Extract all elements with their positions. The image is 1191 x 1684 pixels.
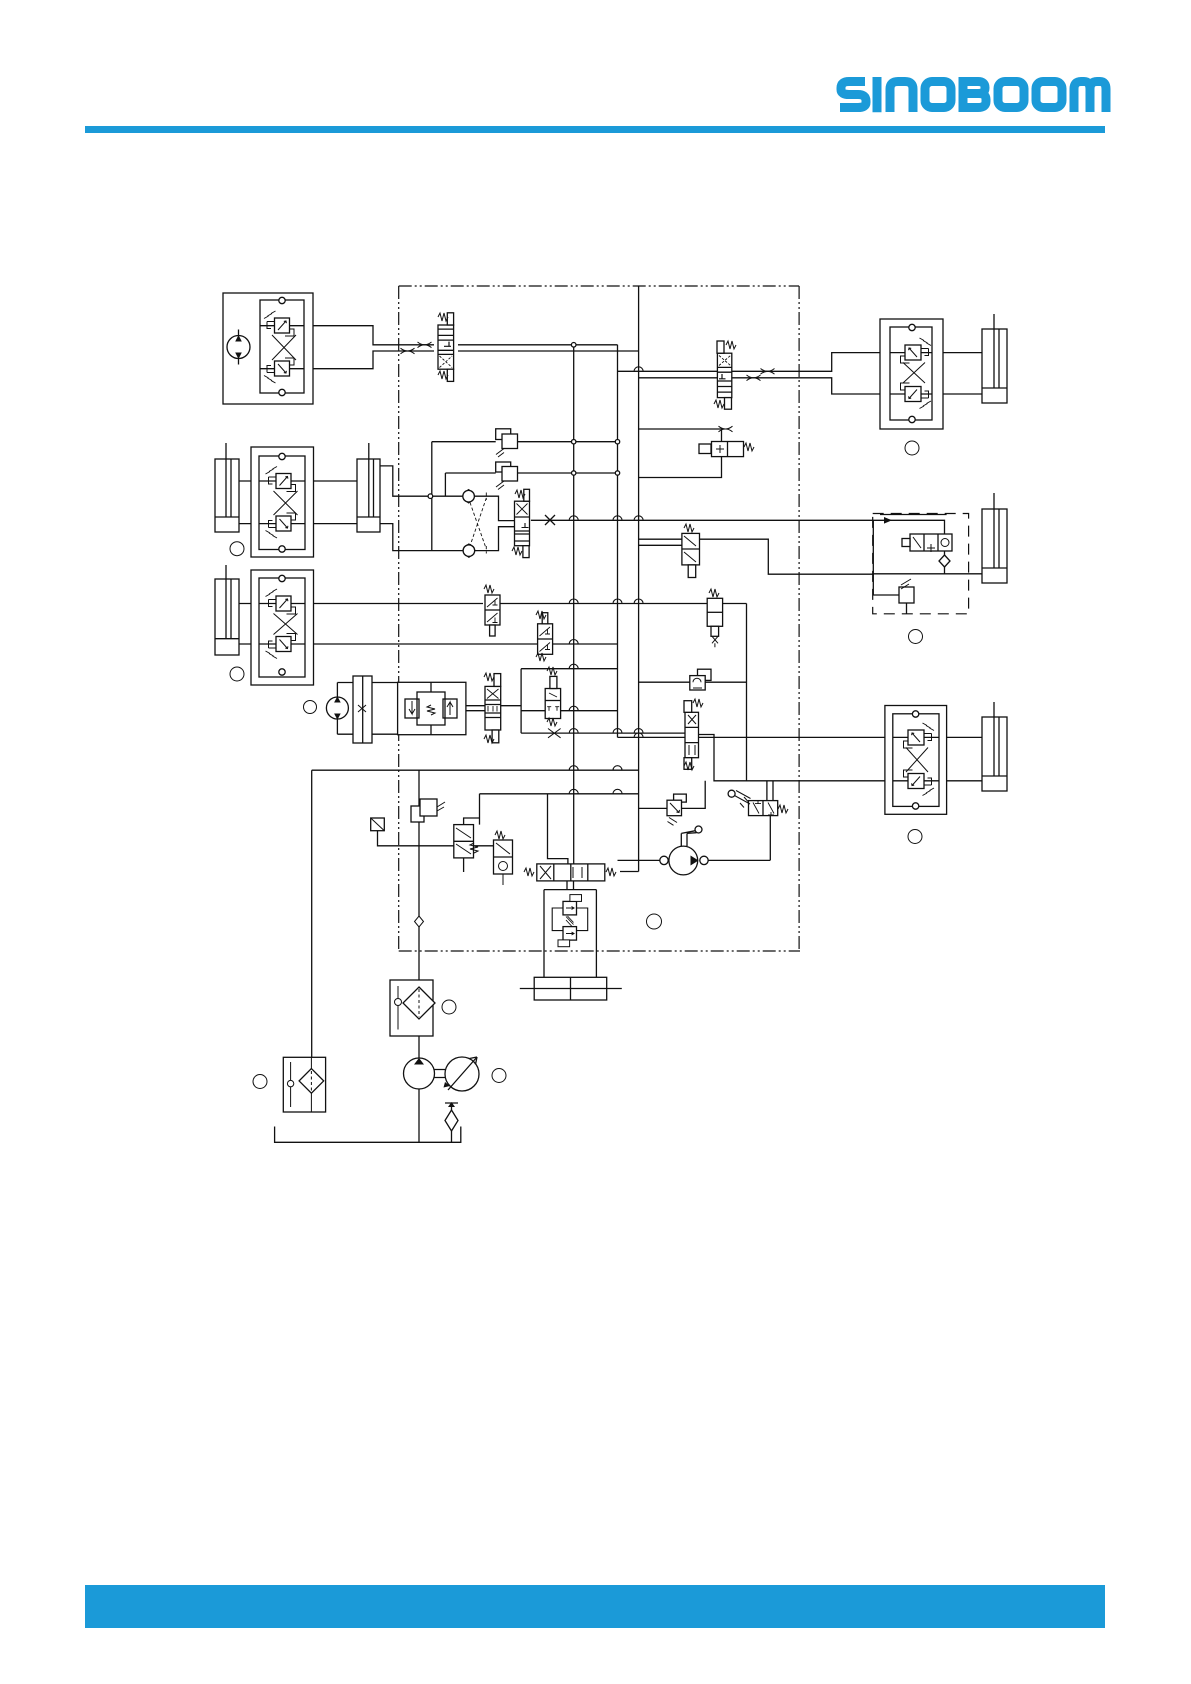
steer cylinder left: [215, 459, 239, 532]
header rule: [85, 126, 1105, 133]
node A junction: [571, 343, 576, 348]
wire to platform block R1 upper: [618, 353, 983, 372]
crossover node bottom: [463, 545, 475, 557]
counterbalance valve R2-bottom: [904, 770, 935, 796]
wire steer cylinder bottom: [380, 524, 515, 551]
cylinder R2: [982, 717, 1007, 791]
wire valve V8 right to axle box: [700, 539, 874, 574]
cylinder B3: [215, 579, 239, 655]
diamond node on pump line: [415, 916, 424, 927]
lock valve block B2: [251, 447, 314, 557]
dual relief block: [544, 890, 596, 978]
emergency pump: [660, 826, 708, 875]
wire pilot supply: [480, 794, 639, 825]
port circle B2 bottom: [279, 546, 285, 552]
solenoid valve V6: [536, 611, 553, 661]
lock valve block R1: [880, 319, 943, 429]
solenoid valve V1: [438, 313, 454, 382]
pressure filter: [390, 980, 435, 1036]
wire RV1 left drop: [431, 442, 433, 551]
ball valve V10: [494, 831, 513, 885]
pilot cross lines R2: [906, 748, 928, 773]
relief valve RV1: [496, 429, 518, 457]
wire RV2 drop: [444, 473, 446, 496]
breather: [445, 1102, 458, 1142]
wire steering supply to axle box: [531, 520, 945, 534]
counterbalance valve B2-top: [266, 467, 296, 492]
port circle M1 bottom: [279, 389, 285, 395]
wire block R1 cylinder rod: [993, 314, 995, 329]
port circle B2 top: [279, 453, 285, 459]
drive motor M2: [326, 696, 348, 720]
wire hand-pump loop top: [639, 429, 722, 478]
steer cylinder right: [357, 459, 380, 532]
wire mid cylinder rod: [993, 493, 995, 509]
wire V9 to V10: [474, 845, 494, 847]
label circle 7: [647, 914, 662, 929]
arrow on steering supply: [884, 517, 892, 524]
wire flush block to V4: [466, 669, 685, 733]
pilot cross lines R1: [903, 363, 925, 384]
tank: [275, 1127, 461, 1143]
label circle 3: [230, 667, 244, 681]
main control valve PV2: [524, 864, 616, 881]
label circle 2: [230, 542, 244, 556]
axle relief RV5: [899, 579, 914, 603]
hand pump check H1: [699, 442, 754, 457]
junction circles: [572, 440, 576, 444]
throttle on steering supply: [545, 515, 555, 525]
throttle on wire: [548, 729, 561, 738]
wire emergency pump left: [618, 859, 771, 861]
wire cylinder block3 bottom line: [239, 643, 618, 645]
wire tank return: [312, 770, 639, 1057]
footer bar: [85, 1585, 1105, 1628]
port circle B3 top: [279, 575, 285, 581]
return filter: [283, 1057, 325, 1112]
relief valve RV2: [496, 462, 518, 490]
node steer top: [428, 494, 433, 499]
wire pump pressure line: [418, 770, 420, 1142]
hydraulic motor M1: [227, 330, 250, 365]
wire to platform block R1 lower: [639, 378, 982, 394]
wire main valve pilot feeds: [548, 794, 639, 872]
SINOBOOM logo: [840, 82, 1106, 113]
counterbalance valve R1-top: [901, 338, 932, 363]
mid cylinder: [982, 509, 1007, 583]
axle float box dashed: [873, 514, 969, 614]
wire motor1 A line: [239, 326, 618, 345]
label circle 8: [442, 1000, 456, 1014]
crossover node top: [463, 490, 475, 502]
wire block2 lines: [239, 481, 357, 524]
brake valve block M1: [223, 293, 313, 404]
parking brake: [353, 676, 372, 743]
port circle B3 bottom: [279, 669, 285, 675]
manifold dash-dot boundary: [399, 286, 800, 951]
label circle 9: [253, 1075, 267, 1089]
pilot relief RV3: [639, 781, 706, 826]
solenoid valve V2: [714, 341, 736, 409]
port circle R2 top: [912, 711, 918, 717]
label circle 6: [909, 630, 923, 644]
cylinder R1: [982, 329, 1007, 403]
directional valve V4: [484, 673, 501, 743]
shuttle valve V5: [545, 667, 560, 726]
bus x=746.5: [746, 604, 748, 781]
bus P2 vertical x=617.5: [617, 345, 619, 738]
relief valve RV4: [411, 799, 445, 822]
counterbalance valve R2-top: [904, 723, 935, 748]
variable displacement actuator: [435, 1057, 480, 1091]
wire motor1 B line: [239, 351, 639, 369]
counterbalance valve M1-bottom: [264, 358, 294, 383]
counterbalance valve R1-bottom: [901, 383, 932, 409]
port circle R1 top: [909, 324, 915, 330]
pilot tank: [520, 977, 622, 1000]
hand lever valve HV: [728, 790, 788, 815]
label circle 11: [908, 830, 922, 844]
pilot cross lines M1: [272, 335, 296, 360]
port circle M1 top: [279, 297, 285, 303]
wire jump arcs: [569, 367, 643, 794]
wire V9 drain: [463, 858, 465, 872]
wire motor2 loop: [337, 683, 397, 735]
coupler marks: [401, 342, 775, 432]
pilot check valve CH1: [690, 669, 711, 690]
counterbalance valve B3-bottom: [266, 634, 296, 659]
wire block R2 cylinder rod: [993, 702, 995, 717]
label circle 5: [905, 441, 919, 455]
wire gauge port: [378, 831, 454, 846]
port circle R1 bottom: [909, 416, 915, 422]
wire cylinder block3 top line: [239, 603, 747, 605]
flushing valve block B2F: [398, 682, 466, 734]
crossover lines: [470, 493, 486, 554]
wire prop valve PV1 right to block R2: [699, 735, 983, 781]
proportional valve PV1: [684, 699, 703, 770]
steering valve CV1: [512, 489, 530, 557]
solenoid valve V5b: [484, 585, 500, 636]
axle filter: [939, 555, 950, 567]
solenoid valve V9: [454, 818, 480, 858]
solenoid valve V8: [682, 524, 700, 578]
counterbalance valve B3-top: [266, 589, 296, 614]
counterbalance valve B2-bottom: [266, 513, 296, 538]
axle valve SB: [902, 534, 952, 552]
lock valve block B3: [251, 570, 314, 685]
wire check CH1: [639, 681, 747, 683]
lock valve block R2: [885, 706, 947, 815]
wire axle box internals: [873, 520, 982, 614]
wire prop valve PV1 left: [618, 736, 983, 738]
gauge plug: [371, 818, 385, 831]
bus P1 vertical x=573.7: [573, 345, 575, 864]
wire steer cylinder top: [380, 466, 515, 521]
wire main valve to relief block: [567, 881, 574, 890]
wire left cylinder rods: [226, 443, 369, 579]
hand valve stubs: [767, 781, 773, 861]
wire valve V8 left pair: [639, 539, 682, 545]
label circle 10: [492, 1069, 506, 1083]
port circle R2 bottom: [912, 803, 918, 809]
counterbalance valve M1-top: [264, 311, 294, 336]
wire relief RV1: [432, 441, 618, 443]
label circle 4: [304, 701, 317, 714]
solenoid valve V3: [707, 589, 722, 647]
wire relief RV2: [445, 472, 617, 474]
bus P3 vertical x=638.6: [638, 286, 640, 872]
pilot cross lines B2: [274, 491, 298, 515]
pilot cross lines B3: [274, 614, 298, 635]
main pump: [404, 1058, 435, 1089]
